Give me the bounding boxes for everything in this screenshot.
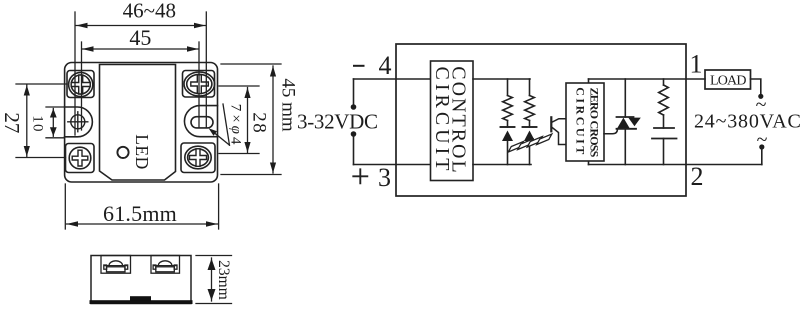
left mounting hole crosshair <box>68 112 88 132</box>
svg-text:46~48: 46~48 <box>123 0 176 23</box>
svg-text:61.5mm: 61.5mm <box>103 201 177 226</box>
triac T1 <box>624 79 626 117</box>
phototransistor Q1 <box>551 117 566 144</box>
svg-text:1: 1 <box>690 50 703 79</box>
dimension 23mm <box>196 256 232 304</box>
LED D2 <box>523 126 537 128</box>
snubber resistor R3 <box>663 79 665 85</box>
wire AC bottom rail <box>589 164 762 166</box>
load box <box>705 70 751 89</box>
svg-text:3-32VDC: 3-32VDC <box>297 110 378 134</box>
side view heatsink bump <box>130 296 151 300</box>
svg-text:ZERO CROSS: ZERO CROSS <box>588 87 602 157</box>
wire AC bottom vertical <box>761 147 763 165</box>
side view terminal recess left <box>101 256 131 274</box>
wire gate from zero-cross <box>604 129 618 134</box>
svg-text:CIRCUIT: CIRCUIT <box>431 67 453 175</box>
svg-text:LOAD: LOAD <box>710 74 746 89</box>
wire control to LEDs bottom <box>473 164 531 166</box>
svg-text:28: 28 <box>248 112 269 134</box>
svg-text:4: 4 <box>379 51 392 80</box>
svg-text:7×φ4: 7×φ4 <box>228 104 244 148</box>
svg-text:10: 10 <box>30 115 46 132</box>
wire terminal 3 rail <box>354 164 431 166</box>
svg-text:3: 3 <box>378 163 391 192</box>
svg-text:45: 45 <box>129 25 151 50</box>
wire AC top rail <box>589 78 706 80</box>
node DC+ top dot <box>351 104 357 110</box>
control circuit box U1 <box>431 61 474 181</box>
side view body <box>91 256 191 304</box>
node AC bottom dot <box>759 144 764 149</box>
dimension 45 (top) <box>82 42 200 130</box>
side view terminal recess right <box>151 256 180 274</box>
terminal screw top-left <box>67 71 94 98</box>
wire DC left vertical lower <box>353 136 355 165</box>
dimension 61.5mm <box>65 184 218 229</box>
terminal screw bottom-left <box>66 144 95 173</box>
snubber capacitor C1 <box>654 127 674 129</box>
node DC- bottom dot <box>351 131 357 137</box>
svg-text:23mm: 23mm <box>215 260 232 300</box>
wire control to LEDs top <box>473 78 530 80</box>
terminal screw bottom-right <box>181 143 215 173</box>
dimension 46~48 <box>75 12 206 135</box>
terminal screw top-right <box>183 71 215 98</box>
SSR top cover <box>100 65 176 181</box>
circuit outer box <box>396 44 686 196</box>
side view base plate (black) <box>90 300 193 304</box>
svg-text:CIRCUIT: CIRCUIT <box>573 87 587 157</box>
dimension 45 mm (right) <box>221 64 281 175</box>
wire load to AC <box>751 79 761 94</box>
LED window circle <box>117 147 128 158</box>
SSR body outline <box>65 63 218 183</box>
svg-text:LED: LED <box>132 134 152 170</box>
label minus <box>353 65 365 67</box>
LED D1 <box>501 126 515 128</box>
dimension 27 <box>16 84 67 158</box>
resistor R2 <box>529 79 531 96</box>
label 7x phi4 with leader arrow <box>209 104 230 145</box>
left mounting boss <box>65 107 93 137</box>
svg-text:27: 27 <box>0 112 24 133</box>
wire DC left vertical upper <box>353 79 355 105</box>
right mounting boss <box>184 106 217 137</box>
wire terminal 4 rail <box>354 78 431 80</box>
svg-text:2: 2 <box>691 162 704 191</box>
right mounting slot <box>191 117 213 128</box>
light coupling lightning ribbon <box>508 134 552 152</box>
node AC top dot <box>758 94 763 99</box>
svg-text:24~380VAC: 24~380VAC <box>694 111 800 133</box>
label plus <box>353 169 367 183</box>
zero cross circuit box U2 <box>566 83 604 161</box>
dimension 10 <box>46 107 64 138</box>
wire AC loop left edge <box>588 79 590 165</box>
svg-text:45 mm: 45 mm <box>278 78 299 132</box>
resistor R1 <box>507 79 509 96</box>
dimension 28 <box>219 86 259 154</box>
